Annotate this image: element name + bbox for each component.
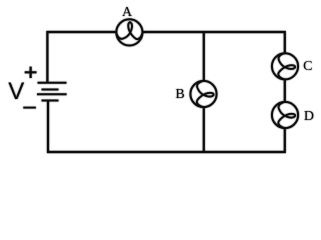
lamp D bbox=[272, 102, 298, 128]
wire top-right run: lamp A to lamp C bbox=[143, 32, 285, 54]
svg-text:D: D bbox=[304, 109, 314, 124]
battery V bbox=[37, 83, 67, 101]
wire top-left run: lamp A to battery top bbox=[47, 32, 116, 82]
wire right between C and D bbox=[284, 79, 286, 102]
svg-text:C: C bbox=[303, 59, 312, 74]
wire bottom run: battery bottom, bottom rail, up to lamp D bbox=[48, 101, 285, 152]
svg-text:A: A bbox=[122, 5, 133, 20]
minus sign bbox=[23, 107, 36, 109]
svg-text:B: B bbox=[175, 87, 184, 102]
plus sign bbox=[25, 67, 37, 78]
wire middle vertical upper bbox=[203, 32, 205, 81]
svg-text:V: V bbox=[8, 78, 24, 105]
lamp A bbox=[116, 19, 142, 45]
wire middle vertical lower bbox=[203, 107, 205, 152]
lamp C bbox=[272, 53, 298, 79]
lamp B bbox=[190, 81, 216, 107]
